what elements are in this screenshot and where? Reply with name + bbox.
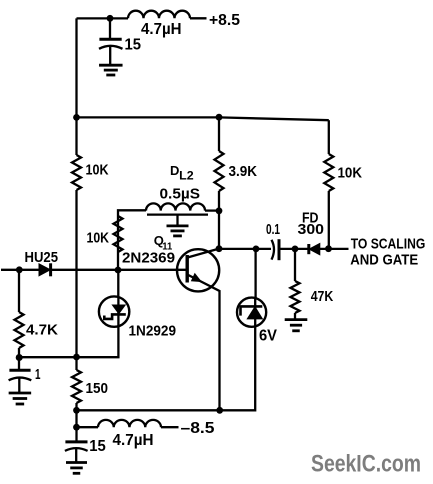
capacitor C5 15 top plate: [65, 440, 87, 443]
wire output node collector to C3: [219, 248, 271, 250]
wire right vertical to R4: [328, 120, 330, 154]
svg-text:TO SCALING: TO SCALING: [351, 235, 426, 252]
delay line DL2 coil: [146, 203, 205, 210]
wire mid vertical R2 to collector node: [218, 191, 220, 249]
wire 6V zener bottom lead to emitter bus: [220, 327, 256, 411]
wire emitter bus y=410: [77, 409, 220, 411]
svg-text:HU25: HU25: [25, 249, 59, 266]
node junction dot (295,248.9): [292, 246, 299, 253]
resistor R3 10K base bias: [114, 216, 123, 252]
wire inductor to -8.5: [161, 426, 179, 428]
svg-text:150: 150: [86, 380, 109, 397]
svg-text:4.7K: 4.7K: [26, 321, 58, 338]
wire left vertical upper: [75, 18, 77, 155]
svg-text:0.1: 0.1: [266, 221, 280, 238]
transistor base bar: [185, 255, 188, 283]
node junction dot (219.7,410.3): [216, 407, 223, 414]
wire C3 to D2: [279, 248, 309, 250]
wire D2 to output terminal: [320, 248, 349, 250]
wire to bottom inductor: [77, 426, 99, 428]
zener D4 chord line: [117, 297, 119, 327]
wire top horizontal bus y=116: [77, 117, 329, 120]
capacitor C3 0.1 curved plate: [272, 240, 275, 260]
svg-text:L2: L2: [179, 169, 194, 183]
wire 1N2929 top lead: [117, 270, 119, 297]
zener D3 6V circle: [237, 298, 266, 327]
diode D2 FD300 triangle: [309, 243, 320, 254]
zener D3 triangle apex up: [247, 307, 262, 319]
svg-text:3.9K: 3.9K: [229, 163, 258, 180]
wire mid vertical to R2: [218, 117, 220, 151]
svg-text:0.5µS: 0.5µS: [160, 185, 201, 202]
ground G3 under 47K: [285, 318, 308, 321]
node junction dot (118,270): [115, 267, 122, 274]
transistor collector lead: [188, 249, 220, 258]
capacitor C2 1 top plate: [9, 369, 30, 372]
node junction dot (256,249): [253, 246, 260, 253]
svg-text:15: 15: [89, 438, 106, 455]
wire top rail right segment to +8.5: [190, 17, 207, 19]
wire delay line left lead down to R3: [118, 210, 146, 252]
resistor R5 150: [72, 370, 81, 403]
node junction dot (76,116): [73, 114, 80, 121]
wire C5 bottom lead: [75, 449, 77, 462]
wire C1 bottom lead: [109, 47, 111, 65]
diode D2 FD300 cathode bar: [307, 244, 310, 254]
capacitor C1 curved plate: [99, 46, 123, 49]
svg-text:15: 15: [125, 37, 142, 54]
svg-text:2N2369: 2N2369: [122, 250, 175, 267]
zener D3 cathode bar with bent end: [241, 306, 263, 315]
diode D1 HU25 triangle: [39, 264, 50, 276]
svg-text:D: D: [170, 163, 179, 178]
wire C1 top lead: [109, 18, 111, 39]
inductor L1 4.7uH top: [128, 11, 190, 19]
wire R5 bottom through emitter bus to C5: [75, 403, 77, 442]
node junction dot (19,269.8): [16, 266, 23, 273]
svg-text:10K: 10K: [87, 230, 110, 247]
capacitor C5 curved plate: [65, 448, 88, 451]
wire delay line center tap: [176, 215, 178, 226]
svg-text:4.7µH: 4.7µH: [141, 21, 182, 38]
ground G1 under C1: [99, 64, 123, 67]
transistor Q11 2N2369 circle: [177, 249, 219, 291]
node junction dot collector (219,248.7): [216, 245, 223, 252]
svg-text:300: 300: [298, 221, 325, 238]
wire R3 bottom to base node: [117, 252, 119, 270]
ground G4 under C2: [9, 392, 32, 395]
node junction dot (76,427.2): [73, 424, 80, 431]
resistor R1 10K left: [72, 155, 81, 190]
svg-text:47K: 47K: [311, 288, 334, 305]
svg-text:10K: 10K: [338, 165, 363, 182]
wire 47K bottom lead: [294, 313, 296, 319]
wire delay line right lead: [205, 209, 219, 211]
resistor R4 10K right: [324, 154, 333, 191]
wire C2 bottom lead: [18, 379, 20, 393]
node junction dot top rail / C1: [107, 15, 114, 22]
ground G2 under delay line: [167, 224, 189, 227]
resistor R2 3.9K: [215, 151, 224, 191]
wire base segment diode to transistor: [51, 269, 186, 271]
capacitor C3 straight plate: [278, 239, 281, 260]
node junction dot (219,116): [216, 114, 223, 121]
node junction dot (76,410.3): [73, 407, 80, 414]
wire 4.7K bottom lead: [18, 348, 20, 370]
ground G5 under C5: [66, 461, 87, 464]
wire 47K top lead: [294, 249, 296, 281]
wire 1N2929 bottom lead to bias bus: [19, 327, 118, 358]
svg-text:10K: 10K: [86, 161, 109, 178]
diode D1 HU25 cathode bar: [49, 263, 52, 276]
node junction dot (328.5,248.9): [325, 245, 332, 252]
capacitor C2 curved plate: [9, 378, 32, 381]
wire right vertical R4 to output node: [328, 191, 330, 249]
svg-text:AND GATE: AND GATE: [350, 252, 418, 269]
zener D3 chord line: [254, 298, 256, 327]
capacitor C1 15 top plate: [99, 38, 121, 41]
wire top rail left segment: [77, 17, 129, 19]
svg-text:1N2929: 1N2929: [129, 323, 177, 340]
svg-text:–8.5: –8.5: [181, 420, 215, 437]
svg-text:SeekIC.com: SeekIC.com: [311, 451, 421, 478]
node junction dot (19.2,357.5): [16, 354, 23, 361]
resistor R7 4.7K: [15, 312, 24, 348]
resistor R6 47K: [291, 281, 300, 313]
svg-text:6V: 6V: [259, 327, 277, 344]
wire 4.7K top lead: [18, 270, 20, 312]
transistor emitter arrowhead: [191, 274, 201, 282]
inductor L2 4.7uH bottom: [98, 420, 161, 427]
node junction dot (76,357.2): [73, 354, 80, 361]
node junction dot (219,211): [216, 207, 223, 214]
delay line ground bar: [147, 213, 208, 215]
wire base input from left edge: [1, 269, 39, 271]
zener D4 triangle apex down: [112, 305, 125, 314]
wire left vertical mid crossing base wire: [75, 190, 77, 370]
svg-text:+8.5: +8.5: [209, 12, 240, 29]
zener D4 cathode bar with bent end: [104, 314, 126, 319]
svg-text:1: 1: [35, 366, 41, 383]
zener D4 1N2929 circle: [99, 296, 129, 326]
svg-text:4.7µH: 4.7µH: [113, 432, 154, 449]
wire 6V zener top lead: [254, 249, 256, 298]
transistor emitter lead and wire down: [188, 275, 220, 411]
